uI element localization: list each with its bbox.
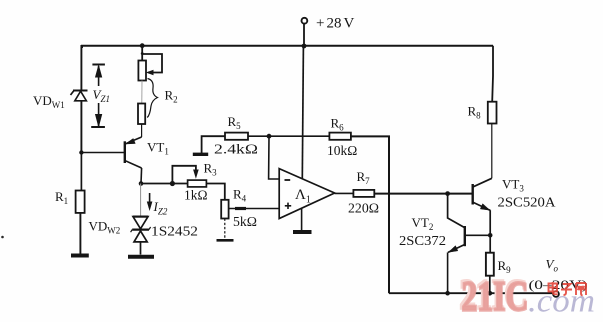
wire R4 to op-amp + input — [229, 208, 280, 210]
node R9 bottom junction — [487, 291, 492, 296]
op-amp A1 — [279, 169, 334, 219]
wire VD_W2 to ground — [140, 242, 142, 255]
wire node down to VD_W2 — [140, 184, 142, 217]
potentiometer R2 upper element — [141, 46, 143, 61]
resistor R4 — [221, 200, 228, 219]
ground for R5 — [193, 153, 208, 156]
wire ground to R5 — [202, 136, 225, 154]
current arrow I_Z2 — [149, 193, 151, 208]
svg-text:2SC372: 2SC372 — [399, 233, 446, 248]
resistor R7 — [353, 190, 374, 197]
node VT2 collector junction — [445, 191, 450, 196]
wire VD_W1 to base node — [80, 101, 82, 153]
wire R9 to output rail — [489, 276, 491, 294]
svg-text:2.4kΩ: 2.4kΩ — [214, 142, 258, 157]
ground under op-amp — [293, 230, 312, 234]
wire collector node to R3 — [141, 183, 188, 185]
transistor VT3 (NPN) — [473, 178, 492, 210]
node collector junction — [139, 181, 144, 186]
wire R1 to ground — [79, 213, 81, 254]
svg-text:1kΩ: 1kΩ — [184, 188, 208, 203]
transistor VT1 (PNP) — [81, 137, 141, 168]
+28V terminal — [302, 18, 308, 24]
wire op-amp ground pin — [301, 209, 303, 231]
wire output rail — [389, 292, 553, 294]
node feedback junction — [267, 134, 272, 139]
resistor R6 — [329, 133, 351, 140]
wire feedback node to R6 — [269, 135, 329, 137]
wire VT3 emitter — [489, 210, 491, 253]
svg-text:10kΩ: 10kΩ — [327, 143, 357, 158]
node R2 top junction — [140, 43, 145, 48]
zener diode VD_W1 — [71, 91, 88, 101]
wire op-amp supply drop — [302, 46, 303, 179]
node junction +28V rail — [302, 44, 307, 49]
node VT2 emitter junction — [445, 291, 450, 296]
wire op-amp output — [335, 192, 354, 194]
resistor R1 — [76, 191, 85, 213]
wire feedback node to - input — [269, 136, 280, 179]
wire R6 to output feedback corner — [351, 136, 389, 293]
node VT2 base junction — [488, 233, 493, 238]
wire VT1 collector — [140, 168, 143, 184]
ground under R1 — [71, 254, 89, 258]
brace for R2 — [147, 79, 157, 118]
zener VD_W2 (bidirectional) — [131, 217, 151, 242]
wire VT3 collector to R8 — [491, 124, 493, 179]
svg-text:5kΩ: 5kΩ — [233, 214, 257, 229]
speck (scan artifact) — [1, 236, 4, 239]
potentiometer R2 lower element — [141, 81, 143, 104]
wire R4 to ground — [224, 219, 226, 240]
transistor VT2 (NPN, mirrored) — [448, 194, 491, 253]
svg-text:2SC520A: 2SC520A — [498, 195, 556, 210]
resistor R9 — [486, 253, 494, 276]
wire R3 to R4 — [206, 184, 224, 200]
svg-text:21IC: 21IC — [462, 275, 529, 321]
ground under R4 — [217, 239, 234, 242]
wire +28V top rail — [82, 46, 493, 48]
V_Z1 indicator — [91, 65, 105, 128]
wire rail corner to R8 — [491, 46, 494, 102]
svg-text:+28V: +28V — [316, 16, 354, 32]
watermark 电子网 (drawn paths) — [549, 282, 587, 295]
wire base node to R1 — [80, 153, 82, 191]
svg-text:1S2452: 1S2452 — [151, 224, 198, 239]
svg-text:220Ω: 220Ω — [348, 201, 379, 216]
wire R7 to VT3 base — [374, 193, 472, 195]
wire R5 to feedback node — [248, 135, 269, 137]
resistor R5 — [225, 133, 248, 140]
ground under VD_W2 — [128, 255, 154, 259]
potentiometer R3 — [172, 166, 196, 184]
wire VT2 emitter down — [447, 252, 449, 293]
resistor R8 — [488, 102, 497, 124]
node VT1 base junction — [79, 150, 83, 154]
node R3 wiper junction — [170, 181, 175, 186]
output terminal — [553, 291, 559, 297]
wire left rail down to VD_W1 — [80, 45, 82, 90]
